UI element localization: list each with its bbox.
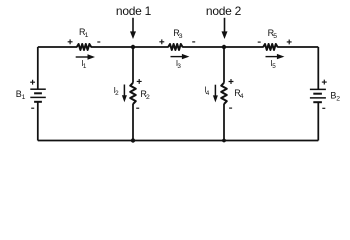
svg-text:4: 4 [240,93,244,100]
svg-text:5: 5 [273,33,277,40]
svg-text:3: 3 [177,63,181,70]
svg-text:node 1: node 1 [116,4,152,18]
svg-text:1: 1 [83,63,87,70]
svg-text:2: 2 [336,96,340,103]
svg-text:2: 2 [146,94,150,101]
svg-text:1: 1 [85,32,89,39]
svg-text:1: 1 [22,94,26,101]
svg-text:node 2: node 2 [206,4,242,18]
svg-text:5: 5 [272,63,276,70]
svg-text:2: 2 [115,90,119,97]
svg-text:3: 3 [179,33,183,40]
svg-text:4: 4 [206,90,210,97]
